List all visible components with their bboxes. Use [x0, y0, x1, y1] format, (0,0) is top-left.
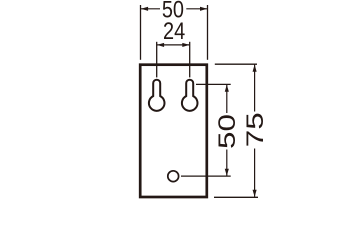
bottom hole	[168, 171, 179, 182]
svg-text:50: 50	[214, 114, 241, 149]
extension line 75 bottom	[214, 196, 258, 198]
svg-text:75: 75	[241, 112, 268, 147]
extension line width-50 left	[140, 5, 142, 60]
svg-text:24: 24	[163, 17, 185, 44]
extension line 24 left	[156, 42, 158, 78]
arrow 24 left	[157, 43, 164, 47]
arrow 75 up	[253, 65, 257, 72]
arrow v50 up	[225, 85, 229, 92]
dimension line 75	[254, 65, 256, 112]
extension line width-50 right	[207, 5, 209, 60]
dimension line 24	[157, 44, 190, 46]
arrow v50 down	[225, 169, 229, 176]
plate outline	[140, 65, 207, 197]
keyhole slot left	[149, 80, 165, 111]
dimension line v50	[226, 85, 228, 113]
dimension line width-50	[141, 8, 160, 10]
extension line v50 top	[196, 83, 231, 85]
keyhole slot right	[182, 80, 198, 111]
arrow 24 right	[182, 43, 189, 47]
extension line 75 top	[215, 63, 257, 65]
arrow width-50 right	[200, 7, 207, 11]
arrow width-50 left	[141, 7, 148, 11]
arrow 75 down	[253, 190, 257, 197]
extension line v50 bottom	[181, 175, 231, 177]
extension line 24 right	[189, 42, 191, 78]
